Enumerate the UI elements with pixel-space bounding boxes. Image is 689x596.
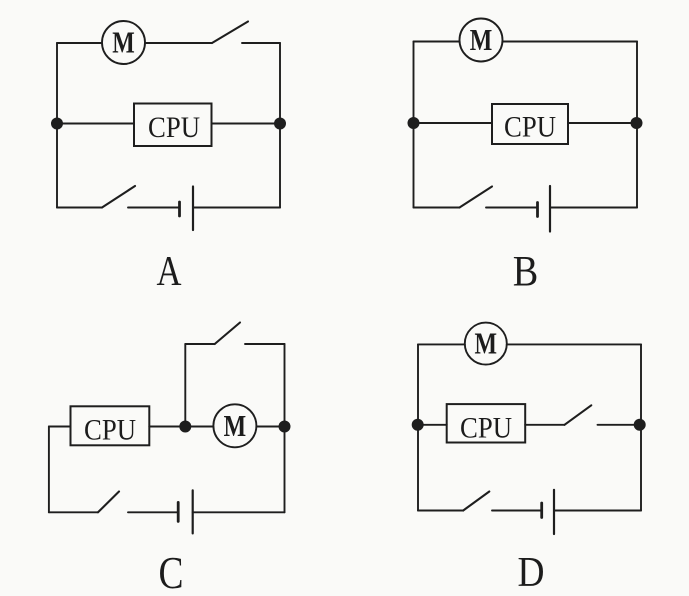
svg-text:M: M xyxy=(112,25,135,60)
svg-text:D: D xyxy=(518,550,545,596)
svg-text:B: B xyxy=(513,249,539,296)
svg-text:CPU: CPU xyxy=(504,111,556,144)
svg-text:CPU: CPU xyxy=(460,412,512,445)
svg-text:M: M xyxy=(475,326,498,361)
svg-text:M: M xyxy=(224,408,247,443)
svg-text:A: A xyxy=(157,249,183,295)
svg-text:M: M xyxy=(470,22,493,57)
svg-text:CPU: CPU xyxy=(148,111,200,144)
svg-text:CPU: CPU xyxy=(84,414,136,447)
svg-text:C: C xyxy=(159,548,184,596)
